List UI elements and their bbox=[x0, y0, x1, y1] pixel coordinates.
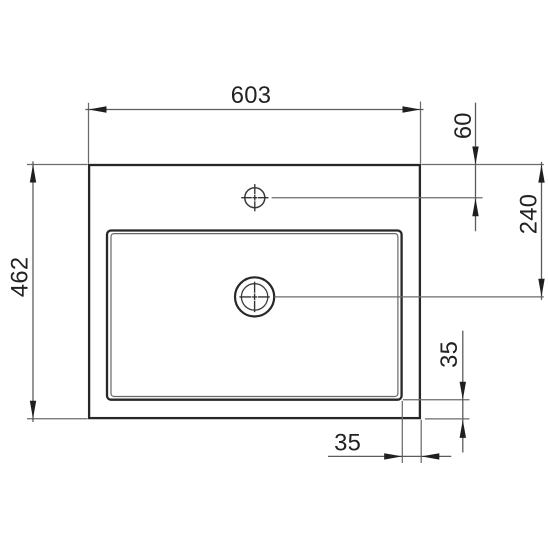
svg-text:60: 60 bbox=[450, 112, 477, 139]
svg-text:462: 462 bbox=[7, 257, 34, 297]
svg-text:35: 35 bbox=[436, 341, 463, 368]
svg-text:603: 603 bbox=[231, 82, 271, 109]
svg-text:35: 35 bbox=[334, 429, 361, 456]
svg-text:240: 240 bbox=[516, 194, 543, 234]
